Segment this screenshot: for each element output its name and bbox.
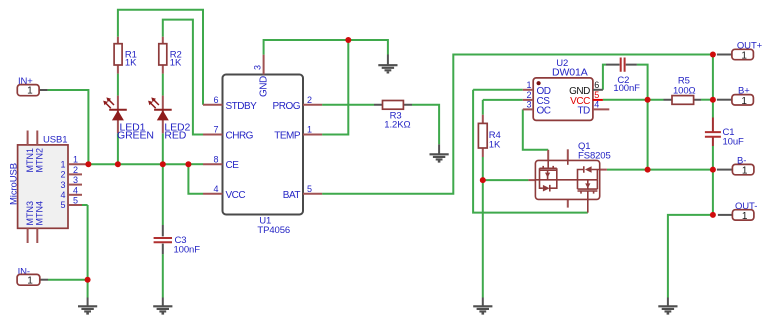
pin 6 GND	[593, 89, 603, 91]
wire R4 to junction to ground	[482, 157, 484, 298]
pin MTN1 stub	[27, 131, 29, 145]
svg-text:4: 4	[60, 190, 65, 200]
svg-text:USB1: USB1	[43, 135, 67, 146]
pin1 indicator dot	[537, 81, 541, 85]
wire R2 to LED2	[162, 74, 164, 96]
ground below C3	[153, 298, 172, 314]
svg-text:1: 1	[27, 86, 33, 97]
pin stub top-left (from OC)	[547, 150, 549, 161]
wire junction to Q1 gate	[483, 179, 529, 181]
FET A cell	[540, 160, 557, 179]
wire CS net to R4	[483, 100, 523, 115]
pin 3 USB	[68, 184, 82, 186]
svg-text:BAT: BAT	[283, 190, 301, 201]
wire IN- net	[48, 205, 88, 298]
wire C2 right to VCC and B- line	[637, 65, 648, 170]
connector IN+	[17, 76, 47, 97]
svg-text:MicroUSB: MicroUSB	[8, 163, 19, 205]
svg-text:3: 3	[526, 100, 531, 110]
pin MTN4 stub	[36, 228, 38, 243]
wire R1 to LED1	[117, 74, 119, 96]
svg-text:2: 2	[73, 165, 78, 175]
resistor R3	[374, 101, 412, 131]
junction R4 / Q1 gate	[480, 177, 486, 183]
svg-text:STDBY: STDBY	[226, 101, 258, 112]
capacitor C1	[705, 118, 744, 148]
pin 5 BAT	[303, 193, 322, 195]
svg-text:1K: 1K	[489, 140, 501, 151]
svg-text:GREEN: GREEN	[117, 130, 154, 142]
junction OUT- rail	[710, 212, 716, 218]
junction C2 branch / B- line	[645, 167, 651, 173]
wire OD net down and to Q1 bottom	[473, 90, 588, 213]
svg-text:5: 5	[60, 200, 65, 210]
pin MTN2 stub	[36, 131, 38, 145]
svg-text:RED: RED	[164, 130, 186, 142]
ground below R3	[430, 144, 449, 161]
svg-text:1: 1	[741, 51, 747, 62]
LED2 RED	[148, 96, 190, 142]
svg-text:3: 3	[73, 175, 78, 185]
pin 1 USB	[68, 163, 86, 165]
svg-text:1: 1	[741, 96, 747, 107]
svg-text:3: 3	[252, 65, 262, 70]
connector B+	[717, 86, 754, 107]
svg-text:MTN2: MTN2	[35, 148, 45, 173]
LED1 GREEN	[103, 96, 154, 142]
svg-text:7: 7	[213, 125, 218, 135]
svg-text:1.2KΩ: 1.2KΩ	[384, 120, 410, 131]
pin 3 OC	[523, 108, 533, 110]
pin 1 OD	[523, 89, 533, 91]
pin 6 STDBY	[203, 104, 223, 106]
svg-text:1: 1	[27, 275, 33, 286]
connector OUT+	[717, 40, 763, 61]
transistor Q1 FS8205 dual MOSFET	[528, 141, 610, 213]
IC U1 TP4056	[203, 55, 322, 236]
junction GND net / TEMP	[345, 37, 351, 43]
svg-text:DW01A: DW01A	[552, 66, 588, 78]
pin 8 CE	[203, 163, 223, 165]
wire CE link	[188, 163, 203, 165]
svg-text:CE: CE	[226, 160, 240, 171]
svg-text:5: 5	[594, 90, 599, 100]
svg-text:4: 4	[213, 184, 218, 194]
svg-text:4: 4	[594, 100, 599, 110]
wire BAT to top rail to OUT+	[322, 55, 713, 194]
capacitor C3	[154, 225, 201, 255]
svg-text:2: 2	[526, 90, 531, 100]
resistor R5	[664, 75, 702, 104]
wire OC net to Q1	[523, 109, 548, 149]
svg-text:MTN4: MTN4	[35, 201, 45, 226]
svg-text:TD: TD	[577, 105, 590, 116]
pin 2 USB	[68, 173, 82, 175]
svg-text:GND: GND	[258, 76, 269, 97]
svg-text:10uF: 10uF	[723, 137, 745, 148]
svg-text:MTN3: MTN3	[25, 201, 35, 226]
junction B- rail	[710, 167, 716, 173]
pin stub top-middle dangling	[567, 149, 569, 160]
svg-text:8: 8	[213, 154, 218, 164]
pin 2 PROG	[303, 104, 322, 106]
wire R1 top to STDBY pin 6	[118, 10, 203, 105]
svg-text:OC: OC	[537, 105, 551, 116]
pin 4 TD	[593, 108, 609, 110]
ground below OUT-	[658, 298, 677, 314]
pin 4 VCC	[203, 193, 223, 195]
FET B cell	[578, 180, 598, 213]
svg-text:6: 6	[213, 95, 218, 105]
svg-text:1: 1	[526, 80, 531, 90]
svg-text:3: 3	[60, 180, 65, 190]
connector IN-	[17, 266, 48, 286]
svg-text:4: 4	[73, 185, 78, 195]
junction LED1 rail	[115, 161, 121, 167]
wire R3 to ground	[412, 105, 439, 145]
pin 7 CHRG	[203, 134, 223, 136]
svg-text:1: 1	[742, 211, 748, 222]
svg-text:TEMP: TEMP	[274, 131, 301, 142]
svg-text:1: 1	[742, 166, 748, 177]
svg-text:100Ω: 100Ω	[673, 85, 696, 96]
ground below IN-	[78, 298, 97, 314]
junction C2 / VCC line	[645, 97, 651, 103]
wire TEMP to GND net	[322, 40, 348, 135]
junction IN- / USB pin 5	[85, 277, 91, 283]
svg-text:CHRG: CHRG	[226, 131, 254, 142]
wire U2 GND to C2	[603, 65, 606, 90]
svg-text:MTN1: MTN1	[25, 148, 35, 173]
pin 4 USB	[68, 194, 82, 196]
wire U2 VCC to R5	[603, 99, 664, 101]
wire C1 to B- rail to OUT-	[712, 146, 714, 215]
wire OUT- to bottom ground	[668, 215, 713, 298]
pin 3 GND top	[263, 55, 265, 75]
body diode B	[578, 166, 600, 180]
wire CE to VCC link	[188, 164, 203, 194]
FET A arrow	[547, 171, 549, 180]
svg-text:1: 1	[60, 159, 65, 169]
wire LED2 cathode to rail	[162, 133, 164, 164]
junction LED2 / C3 rail	[160, 161, 166, 167]
svg-text:1K: 1K	[125, 57, 137, 68]
pin stub bottom-middle dangling	[567, 199, 569, 207]
junction B+ rail	[710, 97, 716, 103]
wire IN+ to rail	[48, 90, 189, 164]
pin 5 USB	[68, 204, 82, 206]
svg-text:TP4056: TP4056	[257, 225, 290, 236]
svg-text:6: 6	[594, 80, 599, 90]
svg-text:1: 1	[73, 155, 78, 165]
FET B arrow	[587, 181, 589, 190]
resistor R2	[159, 37, 182, 74]
wire Q1 right to B-	[607, 169, 713, 171]
svg-text:PROG: PROG	[273, 101, 301, 112]
wire GND pin 3 net	[264, 40, 388, 55]
connector OUT-	[718, 201, 757, 222]
body diode A	[540, 180, 557, 192]
ground top near U1	[378, 55, 397, 73]
wire LED1 cathode to rail	[117, 133, 119, 164]
resistor R4	[478, 115, 501, 157]
wire rail to C3	[162, 164, 164, 225]
svg-text:2: 2	[307, 95, 312, 105]
junction OUT+ rail	[710, 52, 716, 58]
pin MTN3 stub	[27, 228, 29, 243]
ground below R4	[473, 298, 492, 314]
svg-text:5: 5	[73, 196, 78, 206]
svg-text:5: 5	[307, 184, 312, 194]
svg-text:1: 1	[307, 125, 312, 135]
capacitor C2	[606, 58, 640, 94]
pin stub right to B-	[600, 169, 607, 171]
wire C3 to ground	[162, 254, 164, 297]
svg-text:VCC: VCC	[226, 190, 246, 201]
wire PROG to R3	[322, 104, 374, 106]
connector USB1 MicroUSB	[8, 131, 86, 244]
pin 2 CS	[523, 99, 533, 101]
mid vertical S1 stub inside	[567, 160, 569, 164]
svg-text:100nF: 100nF	[613, 83, 640, 94]
wire R5 to B+	[701, 99, 713, 101]
wire right rail OUT+ to C1	[712, 55, 714, 118]
gate bar long	[535, 179, 597, 181]
IC U2 DW01A	[523, 58, 610, 120]
connector B-	[717, 155, 754, 176]
pin stub left gate	[528, 179, 535, 181]
svg-text:100nF: 100nF	[174, 244, 201, 255]
wire R2 top to CHRG pin 7	[163, 20, 203, 135]
junction CE / VCC rail	[185, 161, 191, 167]
resistor R1	[114, 37, 137, 74]
svg-text:2: 2	[60, 170, 65, 180]
pin 1 TEMP	[303, 134, 322, 136]
junction IN+ rail / USB pin 1	[85, 161, 91, 167]
pin 5 VCC	[593, 99, 603, 101]
svg-text:1K: 1K	[170, 57, 182, 68]
